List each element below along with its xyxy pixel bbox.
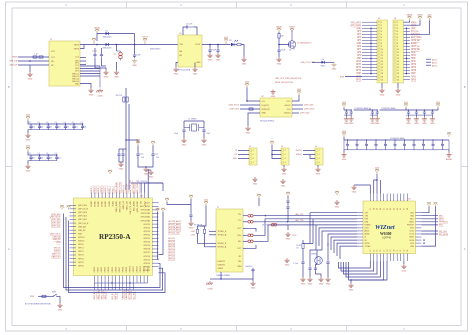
svg-text:104: 104 bbox=[49, 158, 52, 160]
power flag above RP2350 bbox=[108, 170, 112, 174]
svg-text:GPIO1: GPIO1 bbox=[78, 248, 84, 250]
capacitor rowB 9 bbox=[422, 140, 425, 150]
svg-text:R9 R10: R9 R10 bbox=[116, 95, 122, 97]
power flag above W6300 bbox=[375, 167, 380, 174]
svg-text:19: 19 bbox=[397, 76, 399, 78]
capacitor rowB 4 bbox=[374, 140, 377, 150]
svg-text:ADC0: ADC0 bbox=[432, 65, 438, 68]
value label C14 bbox=[245, 266, 253, 268]
power flag left of RP2350 B bbox=[67, 206, 71, 210]
svg-text:GP0_U0TX: GP0_U0TX bbox=[351, 22, 362, 24]
ground rowB right bbox=[448, 150, 450, 153]
svg-text:4: 4 bbox=[381, 31, 382, 33]
value label 5.1K bbox=[34, 54, 38, 56]
wire VBUS flag to J6 pin1 bbox=[404, 21, 410, 23]
wire RT link bbox=[277, 225, 288, 230]
ground cluster left bbox=[284, 258, 289, 266]
net labels J4 bbox=[296, 150, 303, 152]
wire crystal left branch bbox=[183, 121, 185, 128]
svg-text:CC2: CC2 bbox=[75, 65, 79, 67]
wires J2 stubs bbox=[238, 150, 249, 152]
wire bootsel feed bbox=[38, 295, 50, 297]
net labels pin header J6 bbox=[411, 22, 422, 81]
svg-text:QSPI_SS_N: QSPI_SS_N bbox=[228, 105, 239, 107]
svg-text:3: 3 bbox=[253, 158, 254, 160]
svg-text:SPI0_TX: SPI0_TX bbox=[105, 291, 107, 300]
svg-text:GPIO12: GPIO12 bbox=[137, 266, 139, 273]
wires R7 R8 connections bbox=[198, 226, 205, 229]
svg-text:QSPI_SD3: QSPI_SD3 bbox=[304, 105, 313, 107]
power flag VBUS at USB bbox=[94, 27, 100, 33]
svg-text:3: 3 bbox=[285, 158, 286, 160]
fuse F1 label bbox=[114, 54, 117, 56]
net label QSPI_SCLK bbox=[304, 109, 315, 111]
svg-text:USB_DM: USB_DM bbox=[78, 226, 86, 228]
capacitor rowB 6 bbox=[393, 140, 396, 150]
svg-text:GPIO9: GPIO9 bbox=[126, 267, 128, 273]
ground under J2 area bbox=[252, 177, 257, 185]
wire VBUS upper branch bbox=[97, 34, 135, 42]
svg-text:2: 2 bbox=[253, 154, 254, 156]
svg-text:LED1: LED1 bbox=[191, 231, 195, 233]
svg-text:USB_OTP_VDD: USB_OTP_VDD bbox=[130, 200, 132, 214]
svg-text:AGND: AGND bbox=[365, 233, 371, 236]
svg-text:GPIO4: GPIO4 bbox=[108, 267, 110, 273]
svg-text:SPI0_CLK: SPI0_CLK bbox=[101, 289, 103, 299]
svg-text:GND: GND bbox=[242, 63, 247, 65]
crystal oscillator X1 circle bbox=[311, 254, 322, 265]
svg-text:GND: GND bbox=[114, 76, 119, 78]
svg-text:USB_DM: USB_DM bbox=[52, 236, 60, 238]
svg-text:RUN: RUN bbox=[56, 242, 61, 244]
svg-text:LAN_TXP: LAN_TXP bbox=[295, 213, 304, 216]
svg-text:GPIO15: GPIO15 bbox=[143, 259, 150, 261]
ground below USB box bbox=[88, 88, 93, 96]
value label C15 bbox=[293, 263, 299, 265]
value labels crystal caps bbox=[174, 133, 178, 135]
svg-text:I2C_SCL: I2C_SCL bbox=[133, 290, 135, 299]
wire long run to W6300 TXN bbox=[256, 221, 357, 223]
svg-text:L3 FERRITE BEAD: L3 FERRITE BEAD bbox=[390, 137, 405, 140]
power flag at 191 bbox=[189, 195, 193, 199]
svg-text:2: 2 bbox=[319, 154, 320, 156]
resistor R2 on USB line bbox=[33, 56, 37, 58]
svg-text:DO(IO1): DO(IO1) bbox=[262, 105, 270, 107]
svg-text:QSPI_SS_N: QSPI_SS_N bbox=[50, 233, 61, 235]
svg-text:4: 4 bbox=[285, 162, 286, 164]
capacitor array element 7 bbox=[80, 122, 86, 130]
svg-text:GND: GND bbox=[132, 65, 137, 67]
svg-text:2: 2 bbox=[397, 25, 398, 27]
power flag 3V3 top right bbox=[428, 14, 433, 20]
svg-text:GPIO22: GPIO22 bbox=[168, 238, 175, 240]
svg-text:QSPI_SD1: QSPI_SD1 bbox=[78, 219, 87, 221]
net labels left of RP2350 group2 bbox=[50, 233, 61, 244]
svg-text:17: 17 bbox=[397, 70, 399, 72]
pin header J6 refdes bbox=[394, 18, 397, 20]
net label USB_DP bbox=[9, 61, 18, 63]
svg-text:DVDD_2: DVDD_2 bbox=[112, 186, 114, 193]
svg-text:24: 24 bbox=[407, 250, 409, 252]
svg-text:EXRES: EXRES bbox=[365, 225, 372, 227]
capacitor rowB 3 bbox=[365, 140, 368, 150]
svg-text:1V2O: 1V2O bbox=[292, 235, 297, 237]
microcontroller U4 RP2350-A body bbox=[74, 198, 153, 276]
svg-text:QSPI_IOVDD: QSPI_IOVDD bbox=[137, 200, 139, 212]
chassis ground label below USB box bbox=[97, 96, 103, 98]
svg-text:MDIO: MDIO bbox=[439, 219, 445, 221]
svg-text:GND: GND bbox=[26, 170, 31, 172]
flash U2 pin names bbox=[262, 101, 292, 115]
wire flash right pins bbox=[292, 104, 303, 106]
svg-text:16: 16 bbox=[381, 67, 383, 69]
svg-text:GPIO7: GPIO7 bbox=[119, 267, 121, 273]
net label XIN run bbox=[136, 181, 147, 183]
svg-text:SMD4148: SMD4148 bbox=[102, 48, 112, 50]
net labels pin header J5 bbox=[351, 22, 362, 81]
svg-text:10: 10 bbox=[397, 49, 399, 51]
choke 1 on TD+ bbox=[248, 214, 253, 217]
wire exres drop bbox=[309, 213, 311, 243]
ground under flash left bbox=[245, 126, 250, 134]
secondary labels ADC pins bbox=[432, 59, 438, 68]
svg-text:48: 48 bbox=[407, 208, 409, 210]
svg-text:VREG_AVDD: VREG_AVDD bbox=[115, 182, 118, 194]
capacitor decap 1 bbox=[407, 110, 410, 115]
svg-text:GND: GND bbox=[233, 158, 238, 160]
W6300 bottom pin numbers bbox=[370, 250, 409, 252]
svg-text:15pF: 15pF bbox=[174, 133, 178, 135]
net labels above RP2350 rotated bbox=[91, 179, 139, 193]
value label R5 bbox=[281, 36, 285, 38]
capacitor C19 right of chip bbox=[190, 204, 192, 213]
svg-text:GND: GND bbox=[319, 283, 324, 285]
svg-text:19: 19 bbox=[381, 76, 383, 78]
capacitor rowB 10 bbox=[431, 140, 434, 150]
svg-text:Q1 DMG3415U-7: Q1 DMG3415U-7 bbox=[297, 43, 312, 45]
svg-text:CGND: CGND bbox=[97, 96, 103, 98]
W6300 part name bbox=[380, 232, 391, 236]
svg-text:RUN: RUN bbox=[30, 296, 35, 298]
wire regulator output rail bbox=[202, 44, 231, 46]
svg-text:SCSn: SCSn bbox=[409, 231, 414, 233]
power flag cap array bbox=[26, 114, 31, 120]
capacitor rowB 1 bbox=[346, 140, 349, 150]
ground under flash bbox=[270, 90, 275, 98]
svg-text:3V3_EN: 3V3_EN bbox=[411, 31, 419, 33]
svg-text:GND: GND bbox=[411, 28, 416, 30]
svg-text:104: 104 bbox=[40, 158, 43, 160]
wires RP2350 left pin stubs bbox=[70, 205, 77, 265]
junction main rail 2 bbox=[134, 44, 136, 46]
svg-text:43: 43 bbox=[390, 208, 392, 210]
svg-text:15: 15 bbox=[397, 64, 399, 66]
svg-text:GND: GND bbox=[149, 176, 154, 178]
wire switch to ground bbox=[59, 296, 61, 303]
svg-text:USB_OTG_PWR_EN(GPIO24): USB_OTG_PWR_EN(GPIO24) bbox=[275, 78, 302, 80]
svg-text:GPIO25_LED: GPIO25_LED bbox=[168, 233, 180, 235]
svg-text:SPLED_K: SPLED_K bbox=[218, 243, 227, 245]
capacitor C15 1V2O bbox=[302, 249, 304, 261]
wire flagB down right side bbox=[421, 207, 435, 247]
wire RUN to header bbox=[345, 76, 362, 78]
grounds under crystal caps bbox=[309, 271, 311, 277]
svg-text:1: 1 bbox=[319, 150, 320, 152]
svg-text:QSPI_SD2: QSPI_SD2 bbox=[51, 223, 60, 225]
net labels left of RP2350 group1 bbox=[50, 214, 61, 228]
svg-text:B: B bbox=[8, 85, 10, 89]
capacitor decap 4 bbox=[431, 110, 434, 115]
svg-text:LQFP48: LQFP48 bbox=[382, 237, 392, 240]
wire USB gnd pin drop bbox=[80, 84, 91, 89]
svg-text:20: 20 bbox=[394, 250, 396, 252]
svg-text:GP17: GP17 bbox=[411, 76, 417, 78]
wire XIN drop to chip bbox=[162, 183, 164, 191]
power flag VBUS top right bbox=[407, 14, 413, 20]
wire RP2350 right power rail 1 bbox=[158, 212, 159, 259]
svg-text:GND: GND bbox=[26, 139, 31, 141]
svg-text:1: 1 bbox=[253, 150, 254, 152]
svg-text:10: 10 bbox=[381, 49, 383, 51]
capacitor C7 at reg output bbox=[209, 45, 211, 49]
svg-text:GND: GND bbox=[357, 73, 362, 75]
wire trunk branch to C10 rail bbox=[126, 140, 138, 143]
svg-text:QSPI_SS_N: QSPI_SS_N bbox=[78, 223, 89, 225]
wires to ADC secondary labels bbox=[426, 58, 431, 60]
svg-text:ADC_AVDD: ADC_AVDD bbox=[133, 183, 136, 194]
wire J5 bus vertical bbox=[370, 28, 372, 74]
RJ45 connector J7 body bbox=[216, 209, 243, 272]
svg-text:1V2O: 1V2O bbox=[365, 228, 370, 230]
svg-text:GND: GND bbox=[430, 123, 435, 125]
wire decap bottom rail bbox=[344, 114, 351, 116]
svg-text:GPIO28/A2: GPIO28/A2 bbox=[141, 216, 150, 219]
svg-text:104: 104 bbox=[32, 158, 35, 160]
svg-text:GPIO27/A1: GPIO27/A1 bbox=[141, 212, 150, 215]
svg-text:SWDIO: SWDIO bbox=[296, 154, 303, 156]
svg-text:IOVDD_3: IOVDD_3 bbox=[98, 186, 100, 194]
wire wrap bundle gnd stem bbox=[350, 280, 352, 283]
net label QSPI_SD3 bbox=[304, 105, 313, 107]
capacitor C1 at USB bbox=[93, 53, 96, 58]
W6300 package name bbox=[382, 237, 392, 240]
svg-text:GND: GND bbox=[196, 62, 201, 64]
ground under J5 bbox=[381, 83, 383, 88]
svg-text:GPIO19: GPIO19 bbox=[143, 245, 150, 247]
svg-text:GND: GND bbox=[357, 43, 362, 45]
svg-text:GPIO28_ADC2: GPIO28_ADC2 bbox=[168, 226, 181, 229]
wire USB D+ D- feed lines bbox=[18, 56, 49, 58]
svg-text:W25Q32JVSSIQ: W25Q32JVSSIQ bbox=[260, 121, 275, 123]
crystal Y1 label bbox=[188, 119, 196, 121]
ground under C18 bbox=[327, 265, 329, 277]
diode D4 SS14 bbox=[320, 59, 326, 67]
svg-text:TPLED_K: TPLED_K bbox=[218, 231, 227, 233]
svg-text:QSPI_SD3: QSPI_SD3 bbox=[51, 214, 60, 216]
junction flash vcc bbox=[246, 100, 248, 102]
wires W6300 left columns down bbox=[310, 212, 357, 214]
svg-text:VCC: VCC bbox=[51, 51, 56, 53]
wire D4 to gnd flag bbox=[324, 61, 334, 63]
ground decap 2 bbox=[414, 117, 419, 125]
wire L2 link bbox=[380, 109, 406, 111]
svg-text:MOSI: MOSI bbox=[410, 240, 415, 242]
svg-text:GND: GND bbox=[422, 123, 427, 125]
svg-text:SMD4148: SMD4148 bbox=[102, 37, 112, 39]
svg-text:VREG_AVDD: VREG_AVDD bbox=[115, 200, 118, 212]
svg-text:GND: GND bbox=[352, 191, 357, 193]
LED D3 power indicator bbox=[229, 40, 238, 46]
svg-text:PHYRST: PHYRST bbox=[407, 225, 415, 227]
svg-text:GND: GND bbox=[202, 144, 207, 146]
ground decap 2 bbox=[375, 117, 380, 125]
svg-text:USB_DP: USB_DP bbox=[53, 239, 61, 241]
diode D1 on upper branch bbox=[102, 30, 112, 38]
wire USB CC stubs bbox=[80, 57, 86, 59]
svg-text:7: 7 bbox=[397, 40, 398, 42]
svg-text:GPIO8: GPIO8 bbox=[122, 267, 124, 273]
svg-text:GND: GND bbox=[411, 73, 416, 75]
wires W6300 left pin stubs bbox=[357, 213, 363, 246]
ground under C12 bbox=[183, 133, 185, 138]
ground decap 3 bbox=[422, 117, 427, 125]
transistor Q1 labels bbox=[297, 43, 312, 45]
wire decap bottom rail bbox=[406, 114, 432, 116]
power flag CT bbox=[286, 192, 290, 196]
svg-text:C6 1uF: C6 1uF bbox=[186, 23, 193, 25]
svg-text:GND: GND bbox=[58, 309, 63, 311]
svg-text:3: 3 bbox=[381, 28, 382, 30]
svg-text:RP2350-A: RP2350-A bbox=[99, 233, 131, 241]
svg-text:RST_N: RST_N bbox=[116, 292, 118, 299]
ground under J3 bbox=[281, 167, 286, 175]
svg-text:22: 22 bbox=[400, 250, 402, 252]
svg-text:3: 3 bbox=[397, 28, 398, 30]
capacitor decap 2 bbox=[376, 110, 379, 115]
svg-text:VBUS: VBUS bbox=[74, 45, 80, 47]
svg-text:GP1_U0RX: GP1_U0RX bbox=[351, 25, 362, 27]
svg-text:GPIO26_ADC0: GPIO26_ADC0 bbox=[168, 220, 181, 223]
svg-text:GP26_A0: GP26_A0 bbox=[411, 48, 421, 51]
wire XIN run bbox=[131, 182, 163, 184]
svg-text:TPLED_A: TPLED_A bbox=[218, 234, 227, 237]
ground below J3 lower bbox=[280, 179, 285, 187]
svg-text:I2C_SDA: I2C_SDA bbox=[129, 290, 132, 299]
resistor R9 on trunk bbox=[123, 97, 128, 102]
svg-text:13: 13 bbox=[397, 58, 399, 60]
USB connector J1 pin names bbox=[51, 45, 80, 86]
svg-text:GND: GND bbox=[119, 168, 124, 170]
capacitor decap 1 bbox=[371, 110, 374, 115]
wire L1 link bbox=[354, 109, 370, 111]
svg-text:ADC2: ADC2 bbox=[432, 59, 438, 62]
wire C20 C21 tops bbox=[118, 149, 120, 152]
ground left of headers bbox=[334, 200, 339, 208]
junction main rail 1 bbox=[116, 44, 118, 46]
svg-text:SWDIO: SWDIO bbox=[54, 251, 61, 253]
wires J4 stubs bbox=[303, 150, 315, 152]
ground below W6300 right bbox=[403, 261, 405, 264]
svg-text:LAN_TXN: LAN_TXN bbox=[295, 219, 304, 222]
svg-text:GPIO1: GPIO1 bbox=[98, 267, 100, 273]
svg-text:21: 21 bbox=[397, 250, 399, 252]
svg-text:104: 104 bbox=[57, 158, 60, 160]
svg-text:9: 9 bbox=[381, 46, 382, 48]
net label QSPI_SD2 bbox=[230, 109, 239, 111]
capacitor C16 crystal bbox=[308, 266, 311, 271]
svg-text:RUN: RUN bbox=[411, 52, 416, 54]
svg-text:GND: GND bbox=[316, 173, 321, 175]
svg-text:GP22: GP22 bbox=[411, 55, 417, 57]
svg-text:DVDD: DVDD bbox=[109, 200, 111, 206]
svg-text:GPIO0: GPIO0 bbox=[94, 267, 96, 273]
wire second trunk bbox=[128, 104, 130, 190]
wires chokes to long runs bbox=[254, 215, 263, 217]
capacitor C8 at reg output bbox=[217, 45, 219, 49]
wire flash CS feed bbox=[240, 104, 260, 106]
wire J4 gnd drop bbox=[317, 165, 319, 167]
capacitor C20 on trunk left bbox=[117, 152, 120, 157]
wire row A right end bbox=[432, 108, 438, 110]
ground left above W6300 bbox=[354, 185, 370, 194]
value text caps under flags bbox=[141, 157, 145, 159]
svg-text:Q1: Q1 bbox=[289, 50, 291, 52]
svg-text:17: 17 bbox=[383, 250, 385, 252]
svg-text:GND: GND bbox=[342, 159, 347, 161]
wires RP2350 right pin stubs bbox=[152, 203, 159, 267]
W6300 right pin names bbox=[407, 212, 415, 247]
capacitor C17 crystal bbox=[316, 263, 318, 265]
wire flagA to row1 bbox=[421, 207, 429, 213]
svg-text:LINK/R1: LINK/R1 bbox=[218, 261, 225, 263]
flash chip U2 W25Q32 bbox=[260, 98, 292, 117]
svg-text:104: 104 bbox=[32, 127, 35, 129]
capacitor C12 crystal left bbox=[182, 128, 185, 133]
svg-text:20: 20 bbox=[397, 79, 399, 81]
junction RJ45 shield bbox=[220, 278, 221, 279]
capacitor rowB 5 bbox=[384, 140, 387, 150]
svg-text:39: 39 bbox=[377, 208, 379, 210]
net label USB_OTG_PWR bbox=[301, 62, 316, 64]
svg-text:QSPI_SD0: QSPI_SD0 bbox=[78, 212, 87, 214]
wire cap stems bbox=[94, 48, 96, 53]
net label USB_OTG_PWR_EN row1 bbox=[275, 78, 302, 80]
ground under C19 bbox=[190, 218, 192, 221]
net label QSPI_SD0 bbox=[300, 113, 309, 115]
svg-text:TOCAP: TOCAP bbox=[365, 245, 372, 248]
W6300 refdes bbox=[408, 199, 411, 201]
svg-text:GND: GND bbox=[281, 185, 286, 187]
svg-text:QSPI_SCLK: QSPI_SCLK bbox=[78, 209, 89, 211]
svg-text:GND: GND bbox=[251, 287, 256, 289]
wire upper branch down to main rail bbox=[134, 34, 136, 45]
svg-text:USB_DP: USB_DP bbox=[78, 230, 86, 232]
power flag 3V3 at flash bbox=[245, 81, 250, 87]
wire RP2350 nested wrap loop 3 bbox=[69, 221, 166, 293]
wire USB shell pins comb bbox=[80, 65, 100, 67]
ground cap array bbox=[25, 133, 30, 141]
svg-text:QSPI_SCLK: QSPI_SCLK bbox=[304, 109, 315, 111]
svg-text:UART_TX: UART_TX bbox=[52, 252, 62, 255]
svg-text:IOVDD_4: IOVDD_4 bbox=[102, 186, 104, 194]
svg-text:GPIO21: GPIO21 bbox=[168, 241, 175, 243]
ground under regulator left bbox=[173, 67, 178, 75]
svg-text:GPIO16: GPIO16 bbox=[143, 256, 150, 258]
svg-text:QSPI_SD0: QSPI_SD0 bbox=[300, 113, 309, 115]
svg-text:DI(IO0): DI(IO0) bbox=[284, 113, 291, 115]
ground under SW1 bbox=[57, 303, 62, 311]
net label 25MHz textrow bbox=[292, 235, 297, 237]
